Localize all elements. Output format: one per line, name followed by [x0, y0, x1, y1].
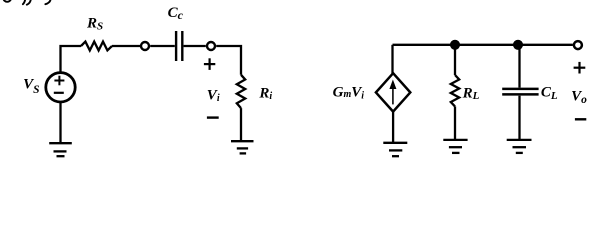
- svg-text:RS: RS: [86, 16, 103, 33]
- svg-text:Vi: Vi: [207, 88, 220, 104]
- svg-text:CL: CL: [541, 84, 558, 102]
- svg-text:GmVi: GmVi: [333, 85, 365, 102]
- svg-text:Ri: Ri: [258, 85, 272, 102]
- svg-text:RL: RL: [462, 85, 480, 102]
- svg-text:Vo: Vo: [571, 88, 587, 106]
- svg-text:Cc: Cc: [168, 5, 184, 22]
- svg-text:VS: VS: [23, 77, 39, 96]
